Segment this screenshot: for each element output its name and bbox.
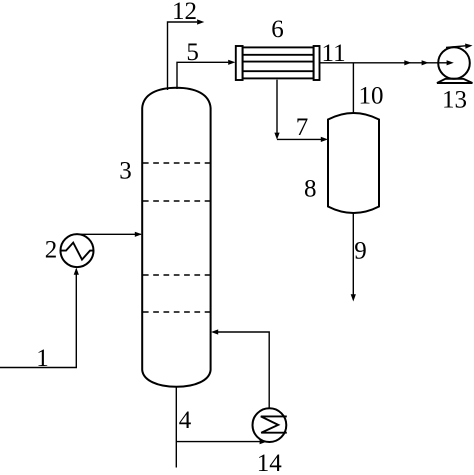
svg-text:8: 8 [304,176,317,203]
svg-text:2: 2 [45,237,58,264]
svg-text:10: 10 [359,83,384,110]
wire stream 7 (to drum 8) [277,138,321,140]
wire stream 7 (condensate down) [276,80,278,133]
svg-text:4: 4 [179,407,192,434]
wire heater 2 to column feed [77,233,141,235]
tray 2 (dashed) [143,200,210,202]
tray 1 (dashed) [143,162,210,164]
wire stream 9 (drum bottoms out) [352,213,354,295]
svg-text:1: 1 [36,345,49,372]
svg-text:13: 13 [442,87,467,114]
wire stream 11 (to blower 13) [320,62,448,64]
arrow stream 7 into drum 8 [321,137,328,142]
svg-text:9: 9 [354,238,367,265]
wire reboiler return to column [218,332,269,408]
wire stream 12 (overhead vapor purge) [168,22,198,90]
arrow stream 7 elbow (down) [274,133,279,140]
arrow stream 11 into blower center [447,60,454,65]
arrow stream 11 mid a [404,60,411,65]
arrow stream 12 [197,19,204,24]
heat exchanger 6 (shell and tube condenser) [236,46,320,80]
wire stream 4 (column bottoms) [175,387,177,468]
svg-text:11: 11 [322,40,346,67]
wire bottoms to reboiler 14 [176,441,260,443]
svg-text:3: 3 [119,158,132,185]
svg-text:5: 5 [186,39,199,66]
wire stream 10 (drum overhead) [352,63,354,114]
tray 3 (dashed) [143,274,210,276]
drum 8 (reflux drum vessel) [328,113,379,213]
arrow stream 9 [351,294,356,301]
arrow stream 5 into exchanger 6 [228,60,235,65]
arrow into reboiler 14 [260,439,267,444]
column 3 (distillation column vessel) [142,88,210,387]
arrow feed into column [135,232,142,237]
svg-text:12: 12 [172,0,197,25]
arrow into heater 2 [74,268,79,275]
wire stream 5 (overhead to condenser) [177,62,228,89]
tray 4 (dashed) [143,311,210,313]
blower 13 (circle with base) [437,44,473,84]
svg-text:14: 14 [257,450,283,475]
reboiler 14 (circle with sigma coil) [253,408,287,442]
arrow return into column [211,329,218,334]
svg-text:7: 7 [296,114,309,141]
svg-text:6: 6 [271,16,284,43]
heater 2 (circle with zigzag) [61,234,94,267]
wire stream 1 (feed line) [0,269,76,368]
arrow stream 11 mid b [422,60,429,65]
